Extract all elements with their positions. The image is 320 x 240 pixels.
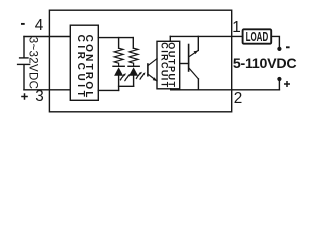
wire output box bottom stub: [170, 89, 172, 90]
light arrow from LED D1 a: [120, 73, 126, 80]
wire terminal4 to control box: [24, 36, 70, 38]
LED D1 cathode bar: [113, 65, 124, 67]
plus sign input: [21, 93, 28, 100]
svg-text:4: 4: [35, 17, 44, 34]
wire resistor R1 top lead: [118, 38, 120, 49]
supply dot minus: [277, 47, 281, 51]
svg-text:2: 2: [234, 90, 243, 107]
svg-text:3~32VDC: 3~32VDC: [26, 37, 38, 90]
wire transistor Q2 base lead: [180, 63, 189, 65]
wire terminal3 to control box: [24, 89, 70, 91]
wire output box to terminal1: [170, 35, 242, 37]
LED D2 cathode bar: [128, 65, 139, 67]
svg-text:LOAD: LOAD: [246, 31, 269, 44]
wire LOAD to supply minus: [271, 36, 279, 47]
svg-text:1: 1: [232, 19, 241, 36]
wire control box to resistor branches: [98, 37, 133, 39]
output circuit box U2: [157, 41, 180, 89]
plus sign output: [284, 81, 290, 87]
phototransistor Q1 emitter arrowhead: [153, 77, 157, 81]
battery B1 short plate: [20, 57, 28, 59]
LOAD box: [243, 29, 272, 43]
battery B1 long plate: [18, 63, 30, 65]
supply dot plus: [277, 77, 281, 81]
transistor Q2 emitter diagonal: [189, 68, 198, 79]
svg-text:CIRCUIT: CIRCUIT: [159, 42, 169, 88]
phototransistor Q1 emitter: [149, 75, 158, 82]
transistor Q2 base bar: [188, 45, 190, 72]
wire battery bottom lead: [23, 65, 25, 90]
wire resistor R2 top lead: [132, 38, 134, 49]
resistor R1: [114, 48, 123, 66]
wire LED tie bar: [119, 85, 134, 87]
wire LED D1 bottom lead: [118, 76, 120, 91]
wire output to terminal2: [171, 89, 280, 91]
LED D2 arrow: [129, 67, 138, 75]
wire LED D2 bottom lead: [133, 76, 135, 87]
wire transistor Q2 collector lead: [197, 36, 199, 50]
control circuit box U1: [70, 25, 98, 100]
wire transistor Q2 emitter lead: [197, 79, 199, 90]
light arrow from LED D2 a: [136, 72, 142, 79]
light arrow from LED D1 b: [124, 74, 130, 81]
transistor Q2 collector arrowhead: [194, 51, 199, 55]
wire terminal2 riser: [278, 81, 280, 90]
wire control box to LED return: [98, 89, 118, 91]
phototransistor Q1 collector: [149, 59, 158, 65]
transistor Q2 collector diagonal: [189, 51, 198, 57]
wire battery top lead: [23, 37, 25, 58]
svg-text:5-110VDC: 5-110VDC: [233, 56, 296, 72]
resistor R2: [129, 48, 138, 66]
minus sign input: [21, 23, 25, 25]
outer relay box: [49, 10, 231, 112]
LED D1 arrow: [114, 67, 123, 75]
wire output box top stub: [169, 36, 171, 41]
svg-text:CIRCUIT: CIRCUIT: [75, 35, 86, 101]
phototransistor Q1 base bar: [147, 64, 149, 76]
svg-text:3: 3: [35, 88, 44, 105]
minus sign output: [286, 46, 290, 48]
light arrow from LED D2 b: [140, 72, 146, 79]
